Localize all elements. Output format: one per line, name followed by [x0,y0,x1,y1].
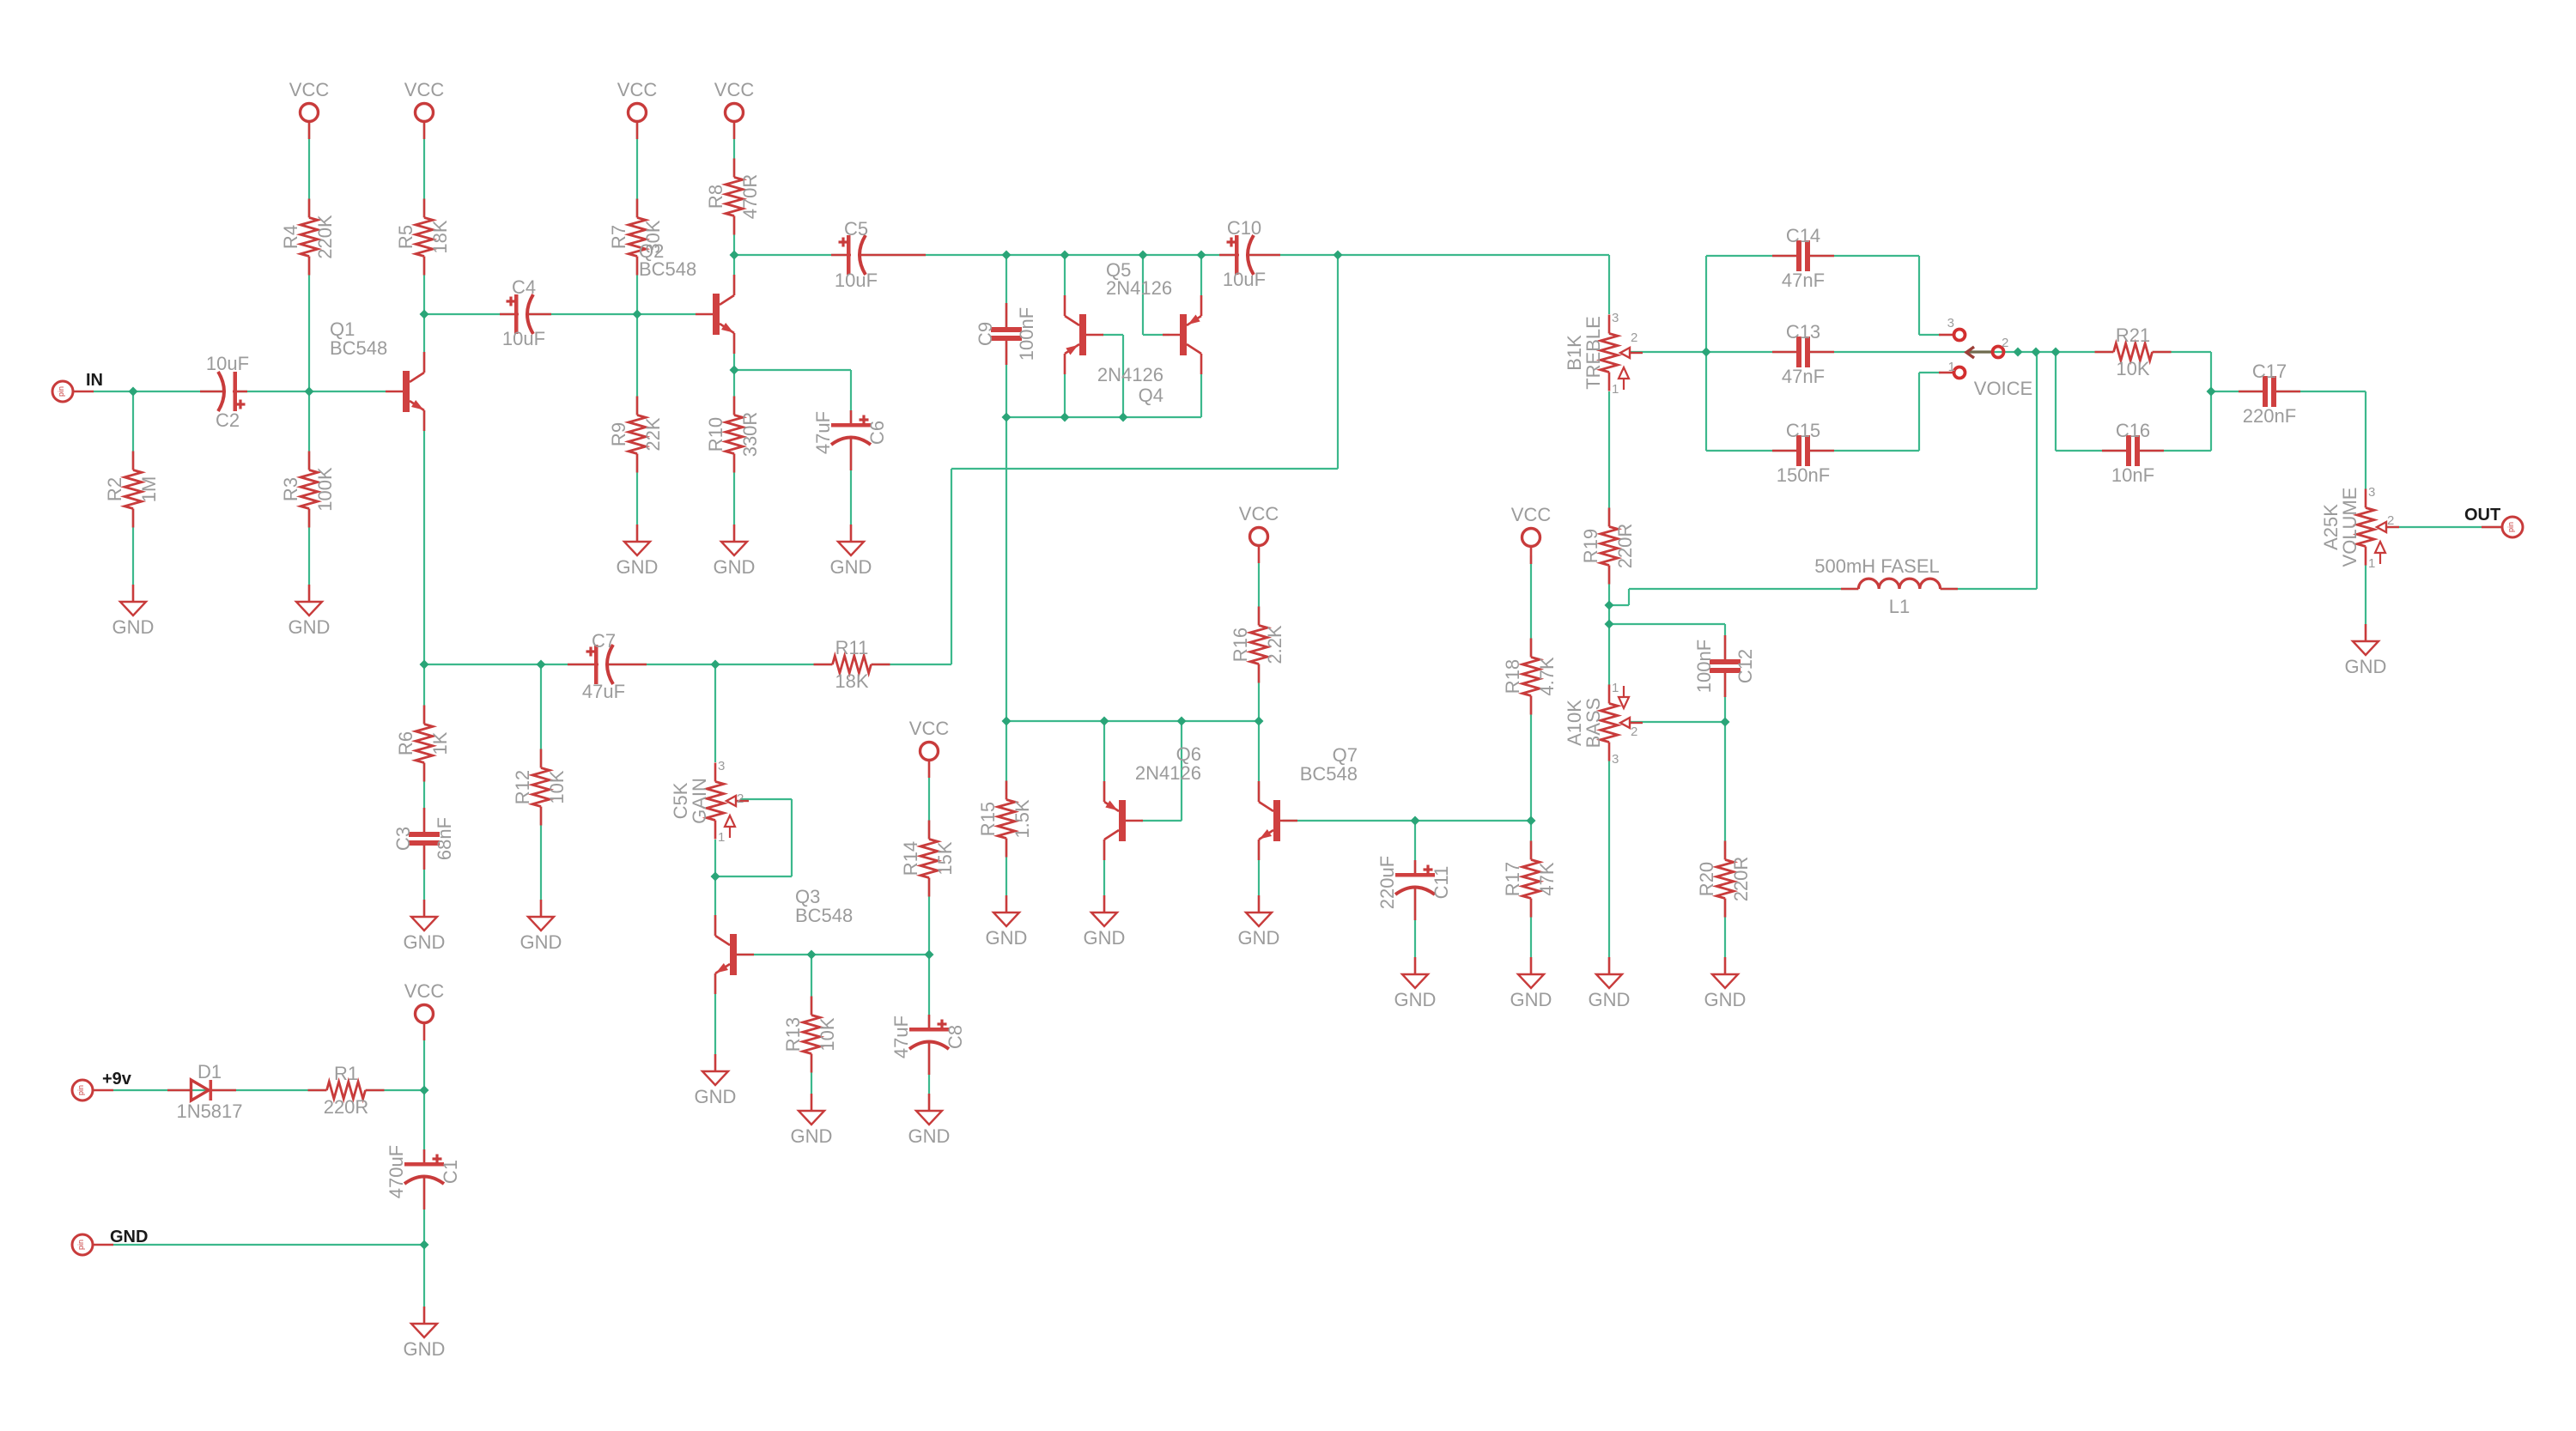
svg-text:pin: pin [76,1085,85,1095]
svg-text:C7: C7 [592,630,616,652]
svg-text:1K: 1K [429,731,451,755]
svg-text:R21: R21 [2116,324,2150,346]
svg-text:GND: GND [520,931,562,953]
svg-text:330R: 330R [739,412,761,458]
svg-text:pin: pin [57,386,65,397]
svg-text:VCC: VCC [714,79,755,100]
svg-text:VCC: VCC [289,79,330,100]
svg-text:47nF: 47nF [1782,366,1825,387]
svg-text:BASS: BASS [1583,698,1604,749]
svg-text:GND: GND [112,616,155,638]
svg-text:R14: R14 [900,841,921,876]
svg-text:R12: R12 [512,770,533,804]
svg-text:Q4: Q4 [1139,385,1163,406]
svg-text:22K: 22K [642,417,664,451]
svg-text:C6: C6 [866,421,888,445]
svg-text:VCC: VCC [617,79,658,100]
svg-text:GND: GND [714,556,756,578]
svg-text:1: 1 [718,830,725,845]
svg-text:GND: GND [791,1125,833,1147]
svg-text:OUT: OUT [2464,506,2500,524]
svg-text:R6: R6 [395,731,416,755]
svg-text:1M: 1M [138,476,160,503]
svg-text:C1: C1 [440,1160,461,1184]
svg-text:47K: 47K [1536,862,1558,895]
svg-text:GND: GND [1510,989,1552,1010]
svg-text:C14: C14 [1786,225,1820,246]
svg-text:R17: R17 [1502,862,1523,896]
svg-text:R19: R19 [1580,529,1601,563]
svg-text:1: 1 [1612,681,1619,695]
svg-text:220K: 220K [314,215,336,259]
svg-text:1: 1 [2368,556,2375,571]
svg-text:100nF: 100nF [1693,640,1715,693]
svg-text:GND: GND [2345,656,2387,677]
svg-text:R2: R2 [104,477,125,501]
svg-text:220R: 220R [1614,524,1636,569]
svg-text:18K: 18K [835,670,868,692]
svg-text:VCC: VCC [404,980,445,1002]
svg-text:10K: 10K [2116,358,2149,379]
svg-text:TREBLE: TREBLE [1583,316,1604,390]
svg-text:C10: C10 [1227,217,1261,239]
svg-text:C17: C17 [2252,361,2287,382]
svg-text:GND: GND [1589,989,1631,1010]
svg-text:BC548: BC548 [639,258,696,280]
svg-text:C15: C15 [1786,420,1820,441]
svg-text:R8: R8 [705,185,726,209]
svg-text:C2: C2 [216,409,240,431]
svg-text:GND: GND [1704,989,1747,1010]
svg-text:470uF: 470uF [386,1145,407,1198]
svg-text:2N4126: 2N4126 [1135,762,1201,784]
svg-text:2: 2 [1631,330,1637,345]
svg-text:C13: C13 [1786,321,1820,343]
svg-text:C8: C8 [945,1025,966,1049]
svg-text:2N4126: 2N4126 [1106,277,1172,299]
svg-text:150nF: 150nF [1777,464,1830,486]
svg-text:IN: IN [86,371,103,390]
svg-text:VCC: VCC [1511,504,1552,525]
svg-text:15K: 15K [934,841,956,875]
svg-text:R5: R5 [395,225,416,249]
svg-text:2N4126: 2N4126 [1097,364,1163,385]
svg-text:C5: C5 [844,218,868,240]
svg-text:D1: D1 [197,1061,222,1082]
svg-text:C4: C4 [512,276,536,298]
svg-text:3: 3 [1612,752,1619,767]
svg-text:10K: 10K [817,1017,838,1051]
svg-text:C16: C16 [2116,420,2150,441]
svg-text:R18: R18 [1502,659,1523,694]
svg-text:220R: 220R [1730,857,1752,902]
svg-text:47uF: 47uF [582,681,625,702]
svg-text:220R: 220R [324,1096,369,1118]
svg-text:GND: GND [1238,927,1280,949]
svg-text:VCC: VCC [1239,503,1279,524]
svg-text:VOLUME: VOLUME [2339,488,2360,567]
svg-text:R13: R13 [782,1017,804,1052]
svg-text:R1: R1 [334,1063,358,1084]
svg-text:GND: GND [1394,989,1437,1010]
svg-text:GND: GND [404,931,446,953]
svg-text:100K: 100K [314,467,336,512]
svg-text:1: 1 [1948,360,1955,374]
svg-text:R15: R15 [977,802,999,836]
svg-text:GAIN: GAIN [689,778,710,824]
svg-text:GND: GND [830,556,872,578]
svg-text:220nF: 220nF [2243,405,2296,427]
svg-text:R16: R16 [1230,628,1251,662]
svg-text:VOICE: VOICE [1974,378,2032,399]
svg-text:GND: GND [986,927,1028,949]
svg-text:100nF: 100nF [1016,307,1037,361]
svg-text:47uF: 47uF [812,411,834,454]
svg-text:1.5K: 1.5K [1012,799,1033,839]
svg-text:1: 1 [1612,382,1619,397]
svg-text:3: 3 [2368,485,2375,500]
svg-text:C3: C3 [392,827,414,851]
svg-text:C12: C12 [1735,649,1756,683]
svg-text:47nF: 47nF [1782,270,1825,291]
svg-text:2: 2 [2002,336,2008,350]
svg-text:GND: GND [908,1125,951,1147]
svg-text:R7: R7 [608,225,629,249]
svg-text:R3: R3 [280,477,301,501]
svg-text:C9: C9 [975,322,996,346]
svg-text:2.2K: 2.2K [1264,625,1285,664]
svg-text:GND: GND [1084,927,1126,949]
svg-text:18K: 18K [429,220,451,253]
svg-text:R11: R11 [835,637,869,658]
svg-text:2: 2 [2387,513,2394,528]
svg-text:GND: GND [289,616,331,638]
svg-text:R4: R4 [280,225,301,249]
svg-text:4.7K: 4.7K [1536,657,1558,696]
svg-text:VCC: VCC [909,718,950,739]
svg-text:3: 3 [1612,311,1619,325]
svg-text:R10: R10 [705,417,726,452]
svg-text:2: 2 [737,791,744,806]
svg-text:3: 3 [718,759,725,773]
svg-text:BC548: BC548 [795,905,853,926]
svg-text:500mH FASEL: 500mH FASEL [1814,555,1940,577]
svg-text:BC548: BC548 [1300,763,1358,785]
svg-text:470R: 470R [739,174,761,220]
svg-text:10uF: 10uF [502,328,545,349]
svg-text:R9: R9 [608,422,629,446]
svg-text:10uF: 10uF [835,270,878,291]
svg-text:+9v: +9v [102,1070,132,1088]
svg-text:10nF: 10nF [2111,464,2154,486]
svg-text:R20: R20 [1696,862,1717,896]
svg-text:10uF: 10uF [1223,269,1266,290]
svg-text:2: 2 [1631,725,1637,739]
svg-text:GND: GND [617,556,659,578]
svg-text:3: 3 [1947,316,1954,330]
svg-text:GND: GND [404,1338,446,1360]
svg-text:47uF: 47uF [890,1016,912,1058]
svg-text:10uF: 10uF [206,353,249,374]
svg-text:220uF: 220uF [1376,856,1398,909]
svg-text:VCC: VCC [404,79,445,100]
svg-text:10K: 10K [546,770,568,803]
svg-text:BC548: BC548 [330,337,387,359]
svg-text:68nF: 68nF [434,817,455,860]
svg-text:pin: pin [76,1240,85,1250]
svg-text:C11: C11 [1431,866,1452,900]
svg-text:pin: pin [2506,522,2515,532]
svg-text:L1: L1 [1889,596,1910,617]
svg-text:GND: GND [110,1228,148,1246]
svg-text:GND: GND [695,1086,737,1107]
svg-text:1N5817: 1N5817 [176,1101,242,1122]
